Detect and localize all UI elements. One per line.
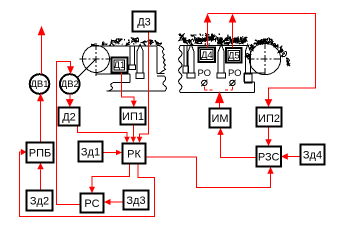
- left machine tube 2 (candle): [137, 45, 143, 74]
- wire D3 to RK: [140, 32, 149, 138]
- wire Zd4 to RZS: [287, 156, 301, 158]
- roll centerline vertical: [95, 43, 97, 76]
- svg-text:РС: РС: [84, 198, 99, 210]
- right machine candle A: [188, 44, 194, 73]
- left machine pedestal under D1: [97, 74, 130, 91]
- svg-text:ИП2: ИП2: [258, 113, 280, 125]
- wire DV2 to D2: [69, 94, 71, 100]
- wire RPB to DV1: [40, 101, 42, 143]
- setpoint Zd3 box: [124, 191, 149, 210]
- left machine base bottom: [107, 90, 166, 92]
- svg-text:Зд1: Зд1: [81, 147, 100, 159]
- left machine frame top edge: [92, 45, 158, 47]
- wire top line to IP2: [208, 14, 316, 100]
- svg-text:РЗС: РЗС: [258, 152, 280, 164]
- wire RK to RZS (bottom feedback): [146, 157, 271, 188]
- motor DV2: [60, 74, 80, 94]
- regulator RS box: [81, 194, 104, 213]
- wire RK to RPB (long feedback): [20, 152, 155, 217]
- wire RS to DV2: [57, 62, 81, 205]
- svg-text:РПБ: РПБ: [29, 148, 51, 160]
- right machine candle B: [218, 44, 224, 73]
- setpoint Zd2 box: [27, 191, 53, 211]
- left machine tube 1 (divider with foot): [130, 47, 134, 66]
- dashed valve linkage: [204, 87, 232, 91]
- wire IP2 to RZS: [268, 127, 270, 141]
- reel (right machine cylinder): [249, 43, 280, 74]
- reel centerline vertical: [264, 42, 266, 76]
- regulator RK box: [123, 144, 146, 164]
- valve symbol o-slash 1: [202, 80, 207, 85]
- right machine candle C: [245, 45, 250, 75]
- regulator RPB box: [27, 143, 54, 163]
- motor DV1: [30, 74, 50, 94]
- wire D1 to IP1: [122, 73, 134, 102]
- roll centerline horizontal: [80, 58, 114, 60]
- setpoint Zd4 box: [301, 145, 325, 165]
- wire IP1 to RK: [132, 125, 134, 138]
- svg-text:РО: РО: [228, 68, 242, 79]
- svg-text:ИМ: ИМ: [211, 113, 228, 125]
- stock scribble (right machine top): [179, 34, 185, 41]
- wire DV1 up arrow: [41, 35, 43, 75]
- wire Zd3 to RS: [110, 201, 124, 203]
- svg-text:Д3: Д3: [137, 17, 151, 29]
- right machine left wavy edge: [179, 46, 182, 93]
- wire RK to RS: [92, 164, 130, 188]
- setpoint Zd1 box: [79, 142, 103, 162]
- transducer IP1 box: [121, 108, 146, 125]
- transducer IP2 box: [257, 108, 282, 127]
- right machine base: [181, 73, 266, 92]
- sensor D1 box (double frame): [112, 58, 128, 73]
- svg-text:Д4: Д4: [201, 50, 213, 61]
- wire D4 up: [207, 22, 209, 48]
- reel centerline horizontal: [248, 58, 283, 60]
- wire RZS to IM: [221, 134, 257, 158]
- stock scribble (left machine top): [91, 44, 95, 46]
- svg-text:РО: РО: [198, 68, 212, 79]
- sensor D2 box: [59, 108, 80, 126]
- svg-text:Д2: Д2: [62, 112, 76, 124]
- left machine wavy break edge: [157, 45, 166, 91]
- svg-text:Зд4: Зд4: [303, 150, 322, 162]
- actuator IM box: [210, 109, 231, 128]
- sensor D3 box: [133, 12, 156, 32]
- svg-text:ДВ2: ДВ2: [61, 79, 79, 90]
- wire IM to valves: [219, 103, 221, 108]
- svg-text:РК: РК: [127, 149, 141, 161]
- wire Zd2 to RPB: [40, 170, 42, 191]
- svg-text:Д1: Д1: [114, 60, 126, 71]
- svg-text:Зд3: Зд3: [126, 195, 145, 207]
- svg-text:Д5: Д5: [228, 51, 240, 62]
- svg-text:ИП1: ИП1: [122, 111, 144, 123]
- drive link roll to DV2: [77, 59, 96, 78]
- regulator RZS box: [257, 147, 282, 167]
- wire Zd1 to RK: [103, 152, 117, 154]
- sensor D4 box (double frame): [198, 48, 215, 63]
- svg-text:ДВ1: ДВ1: [30, 79, 48, 90]
- roll (left machine cylinder): [83, 46, 110, 73]
- left machine right column: [157, 47, 164, 77]
- svg-text:Зд2: Зд2: [30, 196, 49, 208]
- valve symbol o-slash 2: [230, 80, 235, 85]
- right machine tube 0 (divider with foot): [184, 46, 187, 67]
- sensor D5 box (double frame): [226, 48, 242, 63]
- wire D2 to RK: [78, 126, 128, 138]
- wire D5 up: [232, 22, 234, 48]
- right machine top edge: [181, 45, 250, 47]
